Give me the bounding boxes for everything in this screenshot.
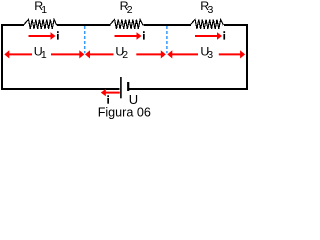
svg-text:2: 2 (127, 4, 133, 16)
voltage arrow U2 (85, 50, 90, 58)
label i2 (143, 31, 145, 33)
wire : bottom right of battery (128, 88, 248, 90)
voltage arrow U3 (167, 50, 172, 58)
resistor R2 (109, 19, 142, 29)
svg-text:1: 1 (41, 4, 47, 16)
svg-text:2: 2 (122, 49, 128, 61)
resistor R1 (23, 19, 56, 29)
battery positive plate (long) (120, 77, 122, 98)
current arrow i2 under R2 (115, 35, 138, 37)
wire : bottom left of battery (1, 88, 120, 90)
battery current arrow i (106, 92, 120, 94)
battery negative plate (short) (127, 82, 129, 91)
svg-text:3: 3 (207, 49, 213, 61)
label i3 (223, 31, 225, 33)
wire : top of loop (segments between resistors) (1, 24, 24, 26)
label i1 (57, 31, 59, 33)
current arrow i1 under R1 (29, 35, 52, 37)
resistor R3 (190, 19, 223, 29)
svg-text:1: 1 (41, 49, 47, 61)
current arrow i3 under R3 (195, 35, 218, 37)
label i (battery) (107, 95, 109, 97)
wire : right side of loop (246, 24, 248, 90)
svg-text:3: 3 (208, 4, 214, 16)
voltage arrow U1 (4, 50, 9, 58)
dashed node line between U1 and U2 (84, 26, 86, 53)
wire : left side of loop (1, 24, 3, 90)
svg-text:Figura 06: Figura 06 (98, 106, 151, 120)
dashed node line between U2 and U3 (166, 26, 168, 53)
